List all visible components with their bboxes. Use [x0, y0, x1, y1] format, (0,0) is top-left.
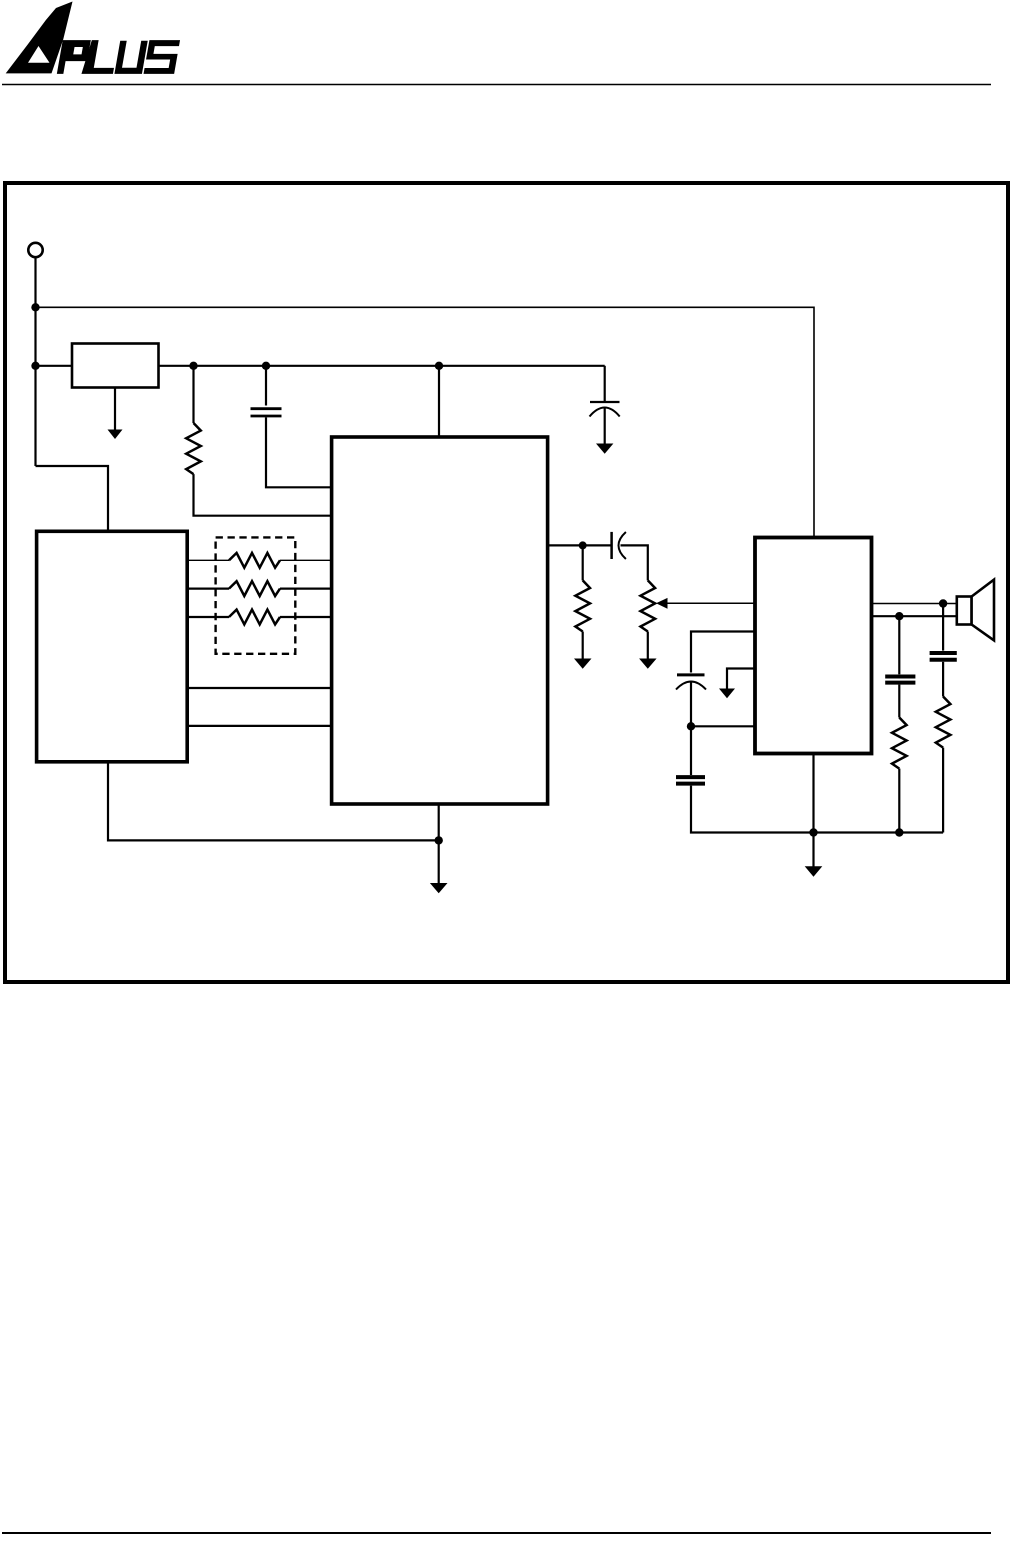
- wire: [265, 366, 267, 406]
- node: [895, 828, 903, 836]
- wire: [691, 786, 943, 833]
- wire: [187, 725, 331, 727]
- potentiometer VR1: [641, 580, 656, 631]
- wire: [690, 726, 692, 775]
- capacitor C2: [604, 366, 606, 403]
- resistor R1: [72, 344, 159, 388]
- wire: [187, 616, 229, 618]
- wire: [898, 616, 900, 674]
- node: [189, 362, 197, 370]
- ground: [108, 430, 123, 440]
- capacitor C7: [930, 651, 957, 655]
- wire: [187, 559, 229, 561]
- wire: [280, 559, 332, 561]
- ground: [438, 840, 440, 883]
- node: [809, 828, 817, 836]
- wire: [942, 604, 944, 651]
- ground: [812, 833, 814, 867]
- wire: [647, 632, 649, 660]
- ground: [639, 659, 657, 669]
- wire: [621, 545, 648, 580]
- node: [435, 836, 443, 844]
- wire: [942, 662, 944, 697]
- wire: [942, 748, 944, 833]
- speaker LS1: [957, 597, 972, 625]
- resistor R6: [582, 545, 584, 580]
- wire: [280, 587, 332, 589]
- capacitor C4: [677, 673, 705, 676]
- block U3: [755, 538, 872, 754]
- capacitor C5: [676, 775, 705, 779]
- wire: [280, 616, 332, 618]
- resistor R7: [892, 718, 907, 769]
- resistor R8: [936, 697, 951, 748]
- input terminal J1: [28, 243, 42, 257]
- ground: [596, 444, 613, 454]
- block U1: [37, 531, 188, 762]
- wire: [187, 687, 331, 689]
- wire: [898, 769, 900, 833]
- node: [687, 722, 695, 730]
- wire: [604, 408, 606, 445]
- node: [262, 362, 270, 370]
- wire: [872, 615, 957, 617]
- Aplus logo: [6, 2, 180, 74]
- ground: [574, 659, 592, 669]
- ground: [727, 669, 755, 690]
- node: [579, 541, 587, 549]
- capacitor C6: [885, 675, 915, 679]
- wire: [187, 587, 229, 589]
- resistor network box: [216, 537, 296, 653]
- wire: [192, 366, 194, 423]
- wire: [812, 754, 814, 833]
- wire: [36, 466, 109, 531]
- wire: [438, 804, 440, 840]
- wire: [34, 257, 36, 466]
- wire: [159, 365, 605, 367]
- capacitor C3: [610, 532, 613, 559]
- wire: [582, 632, 584, 660]
- wire: [194, 474, 332, 516]
- wire: [898, 685, 900, 718]
- resistor R2: [186, 423, 201, 474]
- capacitor C1: [251, 407, 282, 410]
- node B: [31, 362, 39, 370]
- wire: [114, 388, 116, 431]
- wire: [266, 417, 332, 487]
- wire: [691, 632, 755, 673]
- resistor R3: [229, 553, 280, 568]
- resistor R5: [229, 610, 280, 625]
- node: [435, 362, 443, 370]
- resistor R4: [229, 581, 280, 596]
- wire: [438, 366, 440, 437]
- block U2: [332, 437, 548, 804]
- node: [895, 612, 903, 620]
- wire: [548, 544, 612, 546]
- wire: [36, 365, 73, 367]
- wire: [872, 603, 957, 605]
- node: [939, 599, 947, 607]
- wire: [36, 307, 815, 537]
- wire: [108, 762, 439, 841]
- node A: [31, 303, 39, 311]
- wire: [690, 682, 692, 727]
- wire: [691, 725, 755, 727]
